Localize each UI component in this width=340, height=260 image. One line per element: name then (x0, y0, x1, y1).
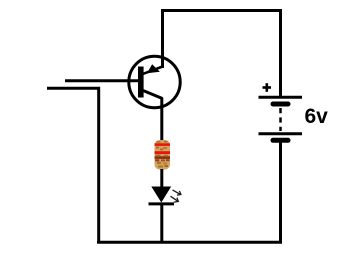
LED D1 cathode bar (149, 202, 175, 205)
LED D1 light arrow 1 (173, 190, 181, 195)
battery B1 cell 2 short plate (273, 138, 288, 143)
transistor Q1 circle (129, 56, 180, 107)
wire: LED cathode to bottom rail (160, 205, 163, 242)
battery B1 cell 1 long plate (259, 96, 303, 99)
wire: left vertical (input return to bottom rail) (47, 88, 99, 242)
LED D1 triangle (151, 187, 171, 203)
wire: bottom rail (97, 241, 282, 244)
transistor Q1 base bar (138, 67, 144, 98)
label 6v (305, 105, 329, 128)
wire: battery negative to bottom rail (279, 142, 282, 243)
wire: emitter to top rail (163, 11, 281, 97)
wire: input to base (65, 79, 139, 82)
LED D1 light arrow 2 (171, 196, 179, 202)
battery B1 cell 1 short plate (273, 102, 288, 107)
wire: resistor to LED (160, 169, 163, 188)
transistor Q1 emitter arrow (147, 64, 160, 73)
resistor R1 body (155, 140, 171, 170)
battery B1 cell 2 long plate (259, 132, 303, 135)
battery B1 plus sign (263, 83, 272, 92)
svg-text:6v: 6v (305, 105, 329, 128)
transistor Q1 emitter lead (top, to supply) (143, 67, 162, 74)
transistor Q1 collector lead (bottom) and wire to resistor (143, 91, 162, 142)
battery B1 internal dashed link (279, 108, 282, 131)
